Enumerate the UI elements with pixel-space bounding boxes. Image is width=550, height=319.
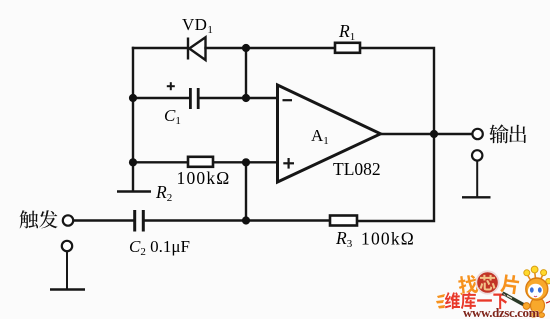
magnifier ring with xin char bbox=[476, 271, 498, 293]
eyes bbox=[530, 287, 534, 292]
wire left vertical bbox=[132, 48, 134, 191]
op-amp plus sign bbox=[283, 158, 294, 169]
wire op-amp output bbox=[380, 133, 472, 135]
speed marks bbox=[436, 294, 445, 309]
svg-text:R1: R1 bbox=[338, 21, 355, 43]
wire node vertical top (x=246 between top wire and C1 wire) bbox=[245, 48, 247, 98]
weiku yixia text bbox=[445, 292, 508, 309]
body bbox=[531, 298, 545, 314]
diode VD1 bbox=[188, 37, 206, 60]
wire C2 to trigger terminal bbox=[74, 219, 134, 221]
mascot bbox=[524, 266, 550, 317]
output ground bbox=[462, 161, 491, 198]
wire R2 row (non-inverting input) bbox=[133, 161, 188, 163]
wire bottom: R3 to trigger node bbox=[246, 219, 330, 221]
face bbox=[528, 284, 543, 298]
svg-text:C1: C1 bbox=[164, 106, 181, 127]
antenna balls bbox=[524, 266, 550, 284]
pian char bbox=[500, 274, 520, 295]
svg-text:A1: A1 bbox=[311, 126, 329, 147]
pencil tip bbox=[503, 293, 506, 297]
node dot C1 right bbox=[242, 94, 250, 102]
op-amp A1 triangle bbox=[278, 85, 381, 182]
wire C1 row (inverting input) bbox=[133, 97, 190, 99]
capacitor C1 bbox=[189, 88, 200, 109]
output ground terminal bbox=[472, 150, 482, 160]
node dot C1 left bbox=[129, 94, 137, 102]
head bbox=[526, 278, 548, 300]
wire bbox=[200, 97, 278, 99]
label trigger bbox=[20, 210, 58, 228]
pencil bbox=[503, 293, 527, 306]
trigger terminal bbox=[63, 215, 73, 225]
whip bbox=[546, 300, 550, 304]
ground left (below R2 node) bbox=[117, 190, 151, 192]
trigger ground bbox=[50, 252, 85, 290]
svg-text:TL082: TL082 bbox=[333, 159, 381, 179]
node dot output bbox=[430, 130, 438, 138]
svg-text:VD1: VD1 bbox=[182, 15, 213, 36]
plus sign of C1 bbox=[167, 82, 175, 90]
wire bbox=[213, 161, 278, 163]
svg-text:R2: R2 bbox=[155, 182, 172, 204]
capacitor C2 bbox=[133, 210, 145, 232]
trigger ground terminal bbox=[62, 241, 72, 251]
op-amp minus sign bbox=[283, 99, 293, 101]
svg-text:100kΩ: 100kΩ bbox=[361, 229, 415, 249]
output terminal bbox=[472, 129, 482, 139]
watermark logo dzsc bbox=[436, 266, 550, 319]
zhao char bbox=[457, 274, 478, 295]
mouth bbox=[534, 295, 537, 298]
wire top mid: diode to R1 bbox=[206, 47, 336, 49]
wire top left: from left vertical to diode bbox=[133, 47, 188, 49]
wire node vertical bottom (x=246 between R2 wire and trigger wire) bbox=[245, 162, 247, 220]
svg-text:C2 0.1μF: C2 0.1μF bbox=[129, 237, 190, 258]
wire top right: R1 to right corner and down bbox=[357, 48, 434, 221]
node dot top (x246,y48) bbox=[242, 44, 250, 52]
node dot R2 left bbox=[129, 158, 137, 166]
node dot R2 right bbox=[242, 158, 250, 166]
node dot trigger bbox=[242, 216, 250, 224]
label output bbox=[489, 124, 526, 143]
hand bbox=[523, 303, 530, 310]
resistor R3 bbox=[330, 216, 357, 226]
antenna stalks bbox=[528, 273, 548, 286]
resistor R2 bbox=[188, 157, 213, 167]
svg-text:100kΩ: 100kΩ bbox=[177, 168, 231, 188]
legs bbox=[531, 313, 537, 318]
resistor R1 bbox=[335, 43, 360, 53]
svg-text:R3: R3 bbox=[335, 228, 353, 250]
wire trigger node to C2 bbox=[145, 219, 246, 221]
